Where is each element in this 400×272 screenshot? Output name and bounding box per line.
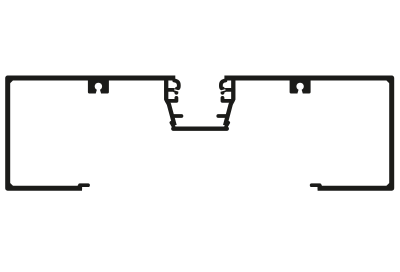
wire: channel bottom wall <box>173 127 227 131</box>
wire: channel left top hook <box>174 81 179 89</box>
wire: channel right tooth <box>218 114 227 118</box>
wire: bottom-right hook step <box>312 185 320 188</box>
wire: channel right C-clip top arm <box>223 90 234 93</box>
wire: channel right wall with chamfer and lower slant <box>225 79 233 126</box>
wire: channel left C-clip bottom arm <box>167 98 177 101</box>
wire: channel left wall with chamfer and lower slant <box>166 79 174 126</box>
wire: outer shell right (top wall right segment, right wall, bottom wall right segment) <box>224 78 391 188</box>
wire: channel left C-clip top arm <box>166 90 176 93</box>
wire: bottom-left hook riser <box>78 185 82 189</box>
node: inner corner fillets of shell <box>10 80 390 186</box>
wire: white slot right (hook to arm separation) <box>218 90 225 92</box>
wire: channel bottom-left flare <box>171 123 174 128</box>
wire: channel right top hook <box>221 81 226 89</box>
wire: channel bottom-right flare <box>225 123 228 128</box>
wire: channel right C-clip bottom arm <box>223 98 233 101</box>
node: left screw port <box>88 79 109 95</box>
node: right screw port <box>290 79 311 95</box>
wire: bottom-right hook riser <box>318 185 322 189</box>
wire: white slot left (hook to arm separation) <box>174 90 181 92</box>
wire: channel left tooth <box>173 114 182 118</box>
wire: bottom-left hook step <box>80 185 88 188</box>
wire: outer shell left (top wall left segment, left wall, bottom wall left segment) <box>8 78 176 188</box>
